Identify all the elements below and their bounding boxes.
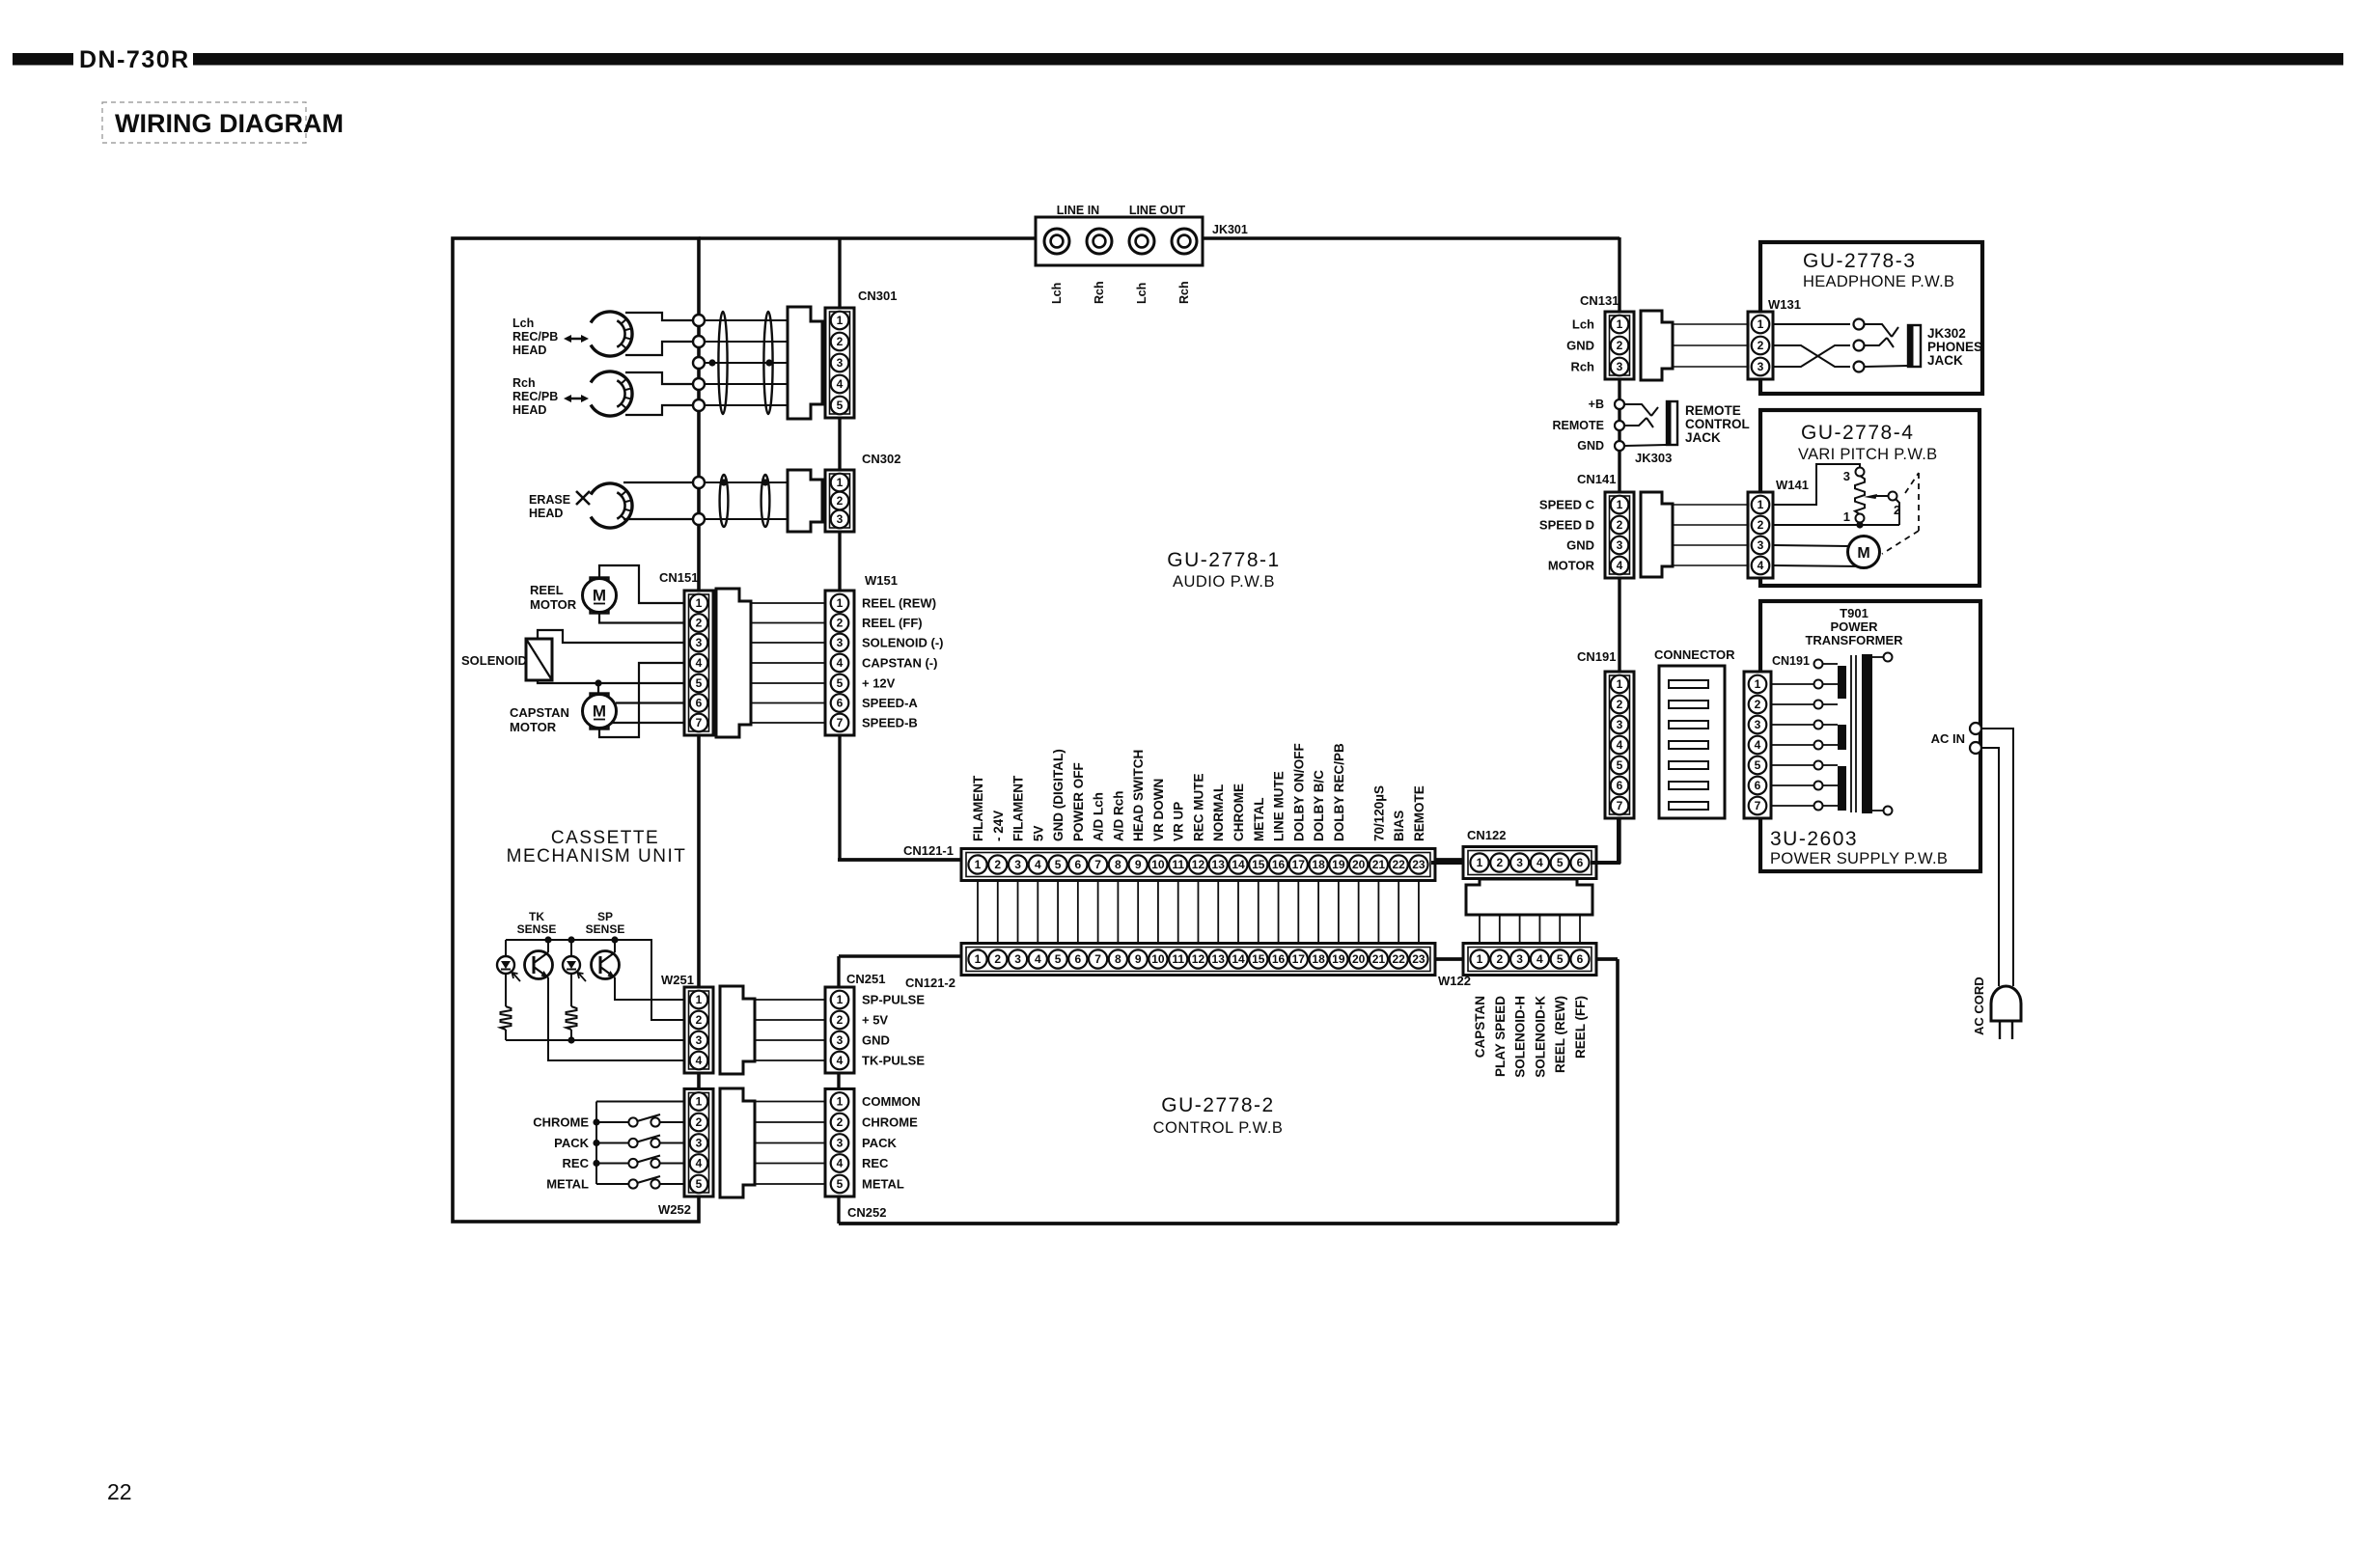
svg-text:6: 6 xyxy=(1577,856,1584,869)
svg-text:3: 3 xyxy=(837,1137,844,1150)
svg-text:CN302: CN302 xyxy=(862,452,900,466)
wire Rch head bottom lead xyxy=(625,405,693,415)
svg-text:DN-730R: DN-730R xyxy=(79,46,190,73)
Rch REC/PB head xyxy=(591,371,632,416)
phones jack contact circles xyxy=(1854,319,1865,372)
svg-text:2: 2 xyxy=(837,617,844,630)
shield junction dots CN302 xyxy=(720,479,768,485)
svg-text:4: 4 xyxy=(1035,858,1041,871)
svg-text:6: 6 xyxy=(1755,779,1761,792)
wires housing to CN251 xyxy=(755,1000,825,1060)
svg-text:W251: W251 xyxy=(661,973,694,987)
svg-text:4: 4 xyxy=(837,377,844,391)
svg-text:SPEED-B: SPEED-B xyxy=(862,716,918,730)
svg-text:4: 4 xyxy=(1536,952,1543,966)
phones jack ring spring xyxy=(1865,338,1887,345)
svg-text:SP: SP xyxy=(597,910,613,923)
svg-text:1: 1 xyxy=(1755,677,1761,691)
svg-text:REC/PB: REC/PB xyxy=(512,330,558,344)
svg-text:CN251: CN251 xyxy=(846,972,885,986)
wire solenoid to CN151 pin5 with junction xyxy=(538,680,685,683)
connector housing CN141 xyxy=(1641,492,1673,577)
label TK SENSE xyxy=(517,910,557,936)
svg-text:7: 7 xyxy=(1617,799,1623,812)
svg-text:CONNECTOR: CONNECTOR xyxy=(1654,647,1735,662)
connector W141 pins 1-4 xyxy=(1748,492,1773,578)
svg-text:REC: REC xyxy=(862,1156,889,1170)
connector W151 pins 1-7 xyxy=(825,591,854,735)
svg-text:SENSE: SENSE xyxy=(586,922,625,936)
svg-text:2: 2 xyxy=(1758,339,1764,352)
svg-text:19: 19 xyxy=(1332,952,1345,966)
wire TK transistor to W251 pin4 xyxy=(548,977,686,1060)
control pwb GU-2778-2 label xyxy=(1153,1094,1284,1137)
svg-text:AC IN: AC IN xyxy=(1931,731,1965,746)
connector CN301 pins 1-5 xyxy=(825,308,854,418)
svg-text:5: 5 xyxy=(1055,952,1062,966)
svg-text:3: 3 xyxy=(1516,856,1523,869)
svg-text:FILAMENT: FILAMENT xyxy=(971,775,985,841)
svg-text:GND: GND xyxy=(1566,538,1594,553)
transformer secondary terminals xyxy=(1872,653,1893,815)
arrow to Rch head xyxy=(564,395,589,402)
wire capstan motor to CN151 pin7 speed xyxy=(612,722,685,724)
svg-text:7: 7 xyxy=(696,716,703,729)
wire W141 pin2 to pot wiper/bottom xyxy=(1773,499,1899,529)
svg-text:GND: GND xyxy=(862,1033,890,1048)
svg-text:9: 9 xyxy=(1135,858,1142,871)
svg-text:2: 2 xyxy=(994,952,1001,966)
svg-text:LINE IN: LINE IN xyxy=(1057,204,1099,217)
svg-text:1: 1 xyxy=(1758,498,1764,511)
svg-text:6: 6 xyxy=(837,697,844,710)
svg-text:3U-2603: 3U-2603 xyxy=(1770,828,1858,850)
TK LED resistor xyxy=(505,974,507,1006)
svg-text:1: 1 xyxy=(1758,317,1764,331)
AC IN terminals xyxy=(1970,723,1981,754)
header bar right segment xyxy=(193,53,2343,66)
svg-text:20: 20 xyxy=(1352,858,1366,871)
svg-text:8: 8 xyxy=(1115,952,1121,966)
svg-text:SENSE: SENSE xyxy=(517,922,557,936)
junction dot sensor ground xyxy=(567,1036,574,1043)
svg-text:3: 3 xyxy=(1758,538,1764,552)
wire capstan motor to CN151 pin6 xyxy=(616,701,685,703)
svg-text:REC: REC xyxy=(563,1156,590,1170)
svg-text:W151: W151 xyxy=(865,573,898,588)
TK sense phototransistor xyxy=(547,940,549,952)
label CAPSTAN MOTOR xyxy=(510,705,569,734)
switch CHROME xyxy=(596,1114,686,1127)
svg-text:CAPSTAN: CAPSTAN xyxy=(510,705,569,720)
svg-text:MOTOR: MOTOR xyxy=(530,597,577,612)
svg-text:20: 20 xyxy=(1352,952,1366,966)
svg-text:18: 18 xyxy=(1312,858,1325,871)
connector CN121-1 23 pins xyxy=(961,849,1435,881)
cable shield ellipses CN302 xyxy=(720,475,770,527)
switch REC xyxy=(596,1156,686,1169)
svg-text:18: 18 xyxy=(1312,952,1325,966)
mechanical link dashed lines xyxy=(1882,473,1919,554)
svg-text:DOLBY ON/OFF: DOLBY ON/OFF xyxy=(1291,743,1306,841)
audio pwb GU-2778-1 box outline xyxy=(699,237,1619,864)
wires CN141 housing to W141 xyxy=(1673,505,1747,565)
labels T901 POWER TRANSFORMER xyxy=(1805,606,1903,647)
CONNECTOR block slots xyxy=(1669,680,1708,810)
svg-text:GND (DIGITAL): GND (DIGITAL) xyxy=(1051,749,1066,841)
svg-text:10: 10 xyxy=(1151,952,1165,966)
reel motor M xyxy=(583,578,617,614)
SP LED resistor xyxy=(570,974,572,1006)
connector housing for CN301 xyxy=(788,307,822,419)
labels REMOTE CONTROL JACK xyxy=(1685,403,1750,445)
svg-text:REEL: REEL xyxy=(530,583,564,597)
svg-text:7: 7 xyxy=(837,716,844,729)
connector CN131 pins 1-3 xyxy=(1605,312,1634,379)
svg-text:2: 2 xyxy=(1758,518,1764,532)
svg-text:5: 5 xyxy=(696,676,703,690)
svg-text:4: 4 xyxy=(1617,738,1623,752)
svg-text:A/D Lch: A/D Lch xyxy=(1092,792,1106,841)
svg-text:ERASE: ERASE xyxy=(529,493,570,507)
svg-text:1: 1 xyxy=(1477,856,1483,869)
CN251 signal labels xyxy=(862,993,925,1068)
svg-text:Rch: Rch xyxy=(512,376,536,390)
svg-text:REC/PB: REC/PB xyxy=(512,390,558,403)
phones jack body JK302 xyxy=(1908,325,1921,367)
svg-text:8: 8 xyxy=(1115,858,1121,871)
svg-text:17: 17 xyxy=(1292,858,1306,871)
TK sense LED xyxy=(505,940,507,956)
svg-text:A/D Rch: A/D Rch xyxy=(1111,790,1125,841)
connector W131 pins 1-3 xyxy=(1748,312,1773,379)
svg-text:METAL: METAL xyxy=(1252,798,1266,842)
Lch REC/PB head xyxy=(591,312,632,356)
junction nodes on mechanism bus to CN302 xyxy=(693,477,705,525)
svg-text:6: 6 xyxy=(1617,779,1623,792)
svg-text:CHROME: CHROME xyxy=(1232,784,1246,841)
svg-text:1: 1 xyxy=(696,596,703,610)
svg-text:3: 3 xyxy=(837,636,844,649)
svg-text:VR DOWN: VR DOWN xyxy=(1151,779,1166,841)
control pwb GU-2778-2 box outline xyxy=(839,956,1618,1224)
title WIRING DIAGRAM with dashed box xyxy=(102,102,344,143)
wires housing to CN252 xyxy=(755,1102,825,1185)
wire W141 pin3 to vari motor xyxy=(1773,545,1848,546)
wire crossover W131 pin2/pin3 xyxy=(1773,345,1850,367)
svg-text:+ 12V: + 12V xyxy=(862,676,896,691)
AC cord wires xyxy=(1981,729,2013,986)
connector CN191 pins 1-7 on power board xyxy=(1744,672,1771,818)
svg-text:CN191: CN191 xyxy=(1772,654,1810,668)
svg-text:POWER SUPPLY P.W.B: POWER SUPPLY P.W.B xyxy=(1770,850,1948,867)
svg-text:W122: W122 xyxy=(1438,974,1471,988)
connector W122 6 pins xyxy=(1463,944,1596,976)
remote control jack body JK303 xyxy=(1667,401,1677,445)
wires between CN121-1 and CN121-2 xyxy=(978,881,1419,944)
svg-text:M: M xyxy=(593,587,606,605)
svg-text:GU-2778-1: GU-2778-1 xyxy=(1167,549,1280,571)
label REEL MOTOR xyxy=(530,583,577,612)
svg-text:DOLBY B/C: DOLBY B/C xyxy=(1312,770,1326,841)
connector W251 pins 1-4 xyxy=(684,987,713,1073)
svg-text:CONTROL: CONTROL xyxy=(1685,417,1750,431)
svg-text:1: 1 xyxy=(696,1095,703,1109)
svg-text:2: 2 xyxy=(1617,518,1623,532)
switch PACK xyxy=(596,1136,686,1148)
svg-text:3: 3 xyxy=(1617,718,1623,731)
svg-text:HEAD: HEAD xyxy=(512,403,546,417)
svg-text:4: 4 xyxy=(1035,952,1041,966)
wire bus to W252 pin1 xyxy=(596,1101,686,1103)
svg-text:Lch: Lch xyxy=(1135,283,1149,304)
svg-text:HEAD: HEAD xyxy=(512,344,546,357)
connector CN121-2 23 pins xyxy=(961,944,1435,976)
svg-text:3: 3 xyxy=(1014,952,1021,966)
sensor supply wire xyxy=(506,940,686,1020)
svg-text:CN122: CN122 xyxy=(1467,828,1506,842)
svg-text:4: 4 xyxy=(696,1054,703,1067)
svg-text:10: 10 xyxy=(1151,858,1165,871)
svg-text:CN151: CN151 xyxy=(659,570,698,585)
svg-text:CONTROL P.W.B: CONTROL P.W.B xyxy=(1153,1119,1284,1137)
phones jack sleeve wire xyxy=(1865,366,1908,367)
svg-text:3: 3 xyxy=(837,356,844,370)
svg-text:1: 1 xyxy=(975,858,982,871)
connector CN251 pins 1-4 xyxy=(825,987,854,1073)
svg-text:GND: GND xyxy=(1577,439,1604,453)
svg-text:JK301: JK301 xyxy=(1212,223,1248,236)
wires CN191 to transformer primary xyxy=(1771,684,1814,806)
svg-text:1: 1 xyxy=(837,993,844,1006)
svg-text:HEAD SWITCH: HEAD SWITCH xyxy=(1131,750,1146,841)
svg-text:+ 5V: + 5V xyxy=(862,1013,888,1028)
svg-text:1: 1 xyxy=(837,476,844,489)
label Rch REC/PB HEAD xyxy=(512,376,558,417)
connector CN122 6 pins xyxy=(1463,847,1596,879)
svg-text:SOLENOID (-): SOLENOID (-) xyxy=(862,636,944,650)
svg-text:CN131: CN131 xyxy=(1580,293,1619,308)
svg-text:5: 5 xyxy=(1617,758,1623,772)
svg-text:2: 2 xyxy=(837,1115,844,1129)
svg-text:2: 2 xyxy=(837,1013,844,1027)
svg-text:GU-2778-4: GU-2778-4 xyxy=(1801,422,1914,444)
svg-text:5: 5 xyxy=(837,676,844,690)
svg-text:3: 3 xyxy=(1843,469,1850,483)
sensor ground wire to W251 pin3 xyxy=(506,1039,686,1041)
svg-text:1: 1 xyxy=(1617,677,1623,691)
remote jack sleeve wire xyxy=(1624,445,1667,446)
connector W252 pins 1-5 xyxy=(684,1089,713,1197)
svg-text:3: 3 xyxy=(837,512,844,526)
wire erase head top lead xyxy=(623,481,693,483)
svg-text:2: 2 xyxy=(1617,698,1623,711)
CN121-1 signal labels vertical xyxy=(971,743,1426,841)
switch METAL xyxy=(596,1176,686,1189)
svg-text:CN252: CN252 xyxy=(847,1205,886,1220)
svg-text:CASSETTE: CASSETTE xyxy=(551,828,659,848)
svg-text:4: 4 xyxy=(837,1054,844,1067)
svg-text:PACK: PACK xyxy=(554,1136,589,1150)
audio pwb GU-2778-1 label xyxy=(1167,549,1280,591)
svg-text:CN121-2: CN121-2 xyxy=(905,976,955,990)
vari pitch pwb GU-2778-4 box xyxy=(1760,410,1979,586)
jack channel labels Lch Rch Lch Rch xyxy=(1050,281,1191,304)
phones jack tip spring xyxy=(1865,324,1892,337)
connector housing CN151-W151 xyxy=(716,589,751,737)
svg-text:VARI PITCH P.W.B: VARI PITCH P.W.B xyxy=(1798,446,1937,463)
connector CN252 pins 1-5 xyxy=(825,1089,854,1197)
svg-text:5: 5 xyxy=(1557,952,1564,966)
svg-text:DOLBY REC/PB: DOLBY REC/PB xyxy=(1332,743,1346,841)
wires junctions to CN301 connector xyxy=(705,320,788,405)
svg-text:21: 21 xyxy=(1372,952,1386,966)
svg-text:23: 23 xyxy=(1412,952,1426,966)
svg-text:12: 12 xyxy=(1192,858,1205,871)
svg-text:2: 2 xyxy=(837,335,844,348)
SP sense LED xyxy=(570,940,572,956)
svg-text:17: 17 xyxy=(1292,952,1306,966)
wire capstan motor to CN151 pin4 xyxy=(599,663,685,737)
svg-text:LINE MUTE: LINE MUTE xyxy=(1272,771,1287,841)
svg-text:5: 5 xyxy=(1755,758,1761,772)
cassette mechanism unit label xyxy=(507,828,687,867)
svg-text:5: 5 xyxy=(837,1177,844,1191)
svg-text:2: 2 xyxy=(696,617,703,630)
wire erase head bottom lead xyxy=(623,518,693,520)
wires housing to W122 xyxy=(1480,915,1580,944)
svg-text:3: 3 xyxy=(696,1137,703,1150)
svg-text:JK303: JK303 xyxy=(1635,451,1672,465)
svg-text:W252: W252 xyxy=(658,1202,691,1217)
svg-text:1: 1 xyxy=(837,596,844,610)
svg-text:REC MUTE: REC MUTE xyxy=(1191,774,1205,842)
svg-text:MOTOR: MOTOR xyxy=(510,720,557,734)
svg-text:CN141: CN141 xyxy=(1577,472,1616,486)
svg-text:19: 19 xyxy=(1332,858,1345,871)
svg-text:2: 2 xyxy=(1496,856,1503,869)
svg-text:W141: W141 xyxy=(1776,478,1809,492)
svg-text:SPEED C: SPEED C xyxy=(1539,498,1595,512)
svg-text:3: 3 xyxy=(1755,718,1761,731)
wires CN131 housing to W131 xyxy=(1673,324,1747,367)
svg-text:Lch: Lch xyxy=(1572,317,1594,332)
CN252 signal labels xyxy=(862,1094,921,1192)
svg-text:3: 3 xyxy=(1758,360,1764,373)
svg-text:TRANSFORMER: TRANSFORMER xyxy=(1805,633,1903,647)
svg-text:6: 6 xyxy=(1577,952,1584,966)
remote jack tip spring xyxy=(1624,404,1651,416)
cable shield ellipses CN301 xyxy=(718,312,772,414)
svg-text:SOLENOID: SOLENOID xyxy=(461,653,527,668)
svg-text:CN301: CN301 xyxy=(858,289,897,303)
svg-text:W131: W131 xyxy=(1768,297,1801,312)
svg-text:1: 1 xyxy=(975,952,982,966)
svg-text:SPEED D: SPEED D xyxy=(1539,518,1594,533)
svg-text:15: 15 xyxy=(1252,952,1265,966)
svg-text:13: 13 xyxy=(1212,952,1226,966)
svg-text:MOTOR: MOTOR xyxy=(1548,559,1595,573)
svg-text:7: 7 xyxy=(1094,858,1101,871)
vari pitch potentiometer xyxy=(1855,464,1897,523)
svg-text:4: 4 xyxy=(696,1157,703,1170)
headphone pwb GU-2778-3 box xyxy=(1760,242,1982,394)
svg-text:5: 5 xyxy=(837,399,844,412)
svg-text:METAL: METAL xyxy=(862,1177,904,1192)
svg-text:M: M xyxy=(593,702,606,721)
svg-text:1: 1 xyxy=(1843,509,1850,524)
svg-text:5: 5 xyxy=(1055,858,1062,871)
svg-text:CAPSTAN (-): CAPSTAN (-) xyxy=(862,656,937,671)
svg-text:23: 23 xyxy=(1412,858,1426,871)
svg-text:6: 6 xyxy=(696,697,703,710)
svg-text:5: 5 xyxy=(696,1177,703,1191)
wire Lch head bottom lead xyxy=(625,342,693,355)
svg-text:1: 1 xyxy=(1477,952,1483,966)
svg-text:Rch: Rch xyxy=(1093,281,1106,304)
svg-text:CHROME: CHROME xyxy=(862,1115,918,1130)
wire SP transistor to W251 pin1 xyxy=(615,977,686,1000)
wire reel motor to CN151 pin1 xyxy=(599,565,685,603)
svg-text:3: 3 xyxy=(1617,360,1623,373)
transformer core lines xyxy=(1851,655,1856,812)
svg-text:+B: +B xyxy=(1589,398,1604,411)
svg-text:7: 7 xyxy=(1755,799,1761,812)
junction dots sensor supply xyxy=(544,936,618,943)
svg-text:SP-PULSE: SP-PULSE xyxy=(862,993,925,1007)
wires housing to W151 xyxy=(751,603,826,723)
svg-text:MECHANISM UNIT: MECHANISM UNIT xyxy=(507,846,687,867)
svg-text:3: 3 xyxy=(1516,952,1523,966)
label SP SENSE xyxy=(586,910,625,936)
solenoid symbol xyxy=(526,639,552,680)
svg-text:1: 1 xyxy=(1617,317,1623,331)
svg-text:Rch: Rch xyxy=(1177,281,1191,304)
svg-text:CN191: CN191 xyxy=(1577,649,1616,664)
wire junction down to capstan motor xyxy=(597,683,599,694)
wire W141 pin1 to pot top xyxy=(1773,464,1861,505)
svg-text:HEAD: HEAD xyxy=(529,507,563,520)
svg-text:REMOTE: REMOTE xyxy=(1553,419,1604,432)
svg-text:4: 4 xyxy=(1536,856,1543,869)
svg-text:GND: GND xyxy=(1566,339,1594,353)
svg-text:GU-2778-3: GU-2778-3 xyxy=(1803,250,1916,272)
transformer primary winding bars xyxy=(1823,664,1847,811)
svg-text:CAPSTAN: CAPSTAN xyxy=(1473,996,1487,1058)
svg-text:Lch: Lch xyxy=(512,316,534,330)
svg-text:CN121-1: CN121-1 xyxy=(903,843,954,858)
svg-text:16: 16 xyxy=(1272,858,1286,871)
shield junction dots CN301 xyxy=(708,359,772,366)
svg-text:4: 4 xyxy=(837,1157,844,1170)
wire CN121-1 to CN122 xyxy=(1431,861,1468,865)
svg-text:POWER: POWER xyxy=(1830,619,1878,634)
svg-text:13: 13 xyxy=(1212,858,1226,871)
svg-text:16: 16 xyxy=(1272,952,1286,966)
switch common bus xyxy=(595,1102,597,1185)
svg-text:22: 22 xyxy=(107,1479,132,1504)
svg-text:AC CORD: AC CORD xyxy=(1972,977,1986,1035)
wire W131 pin1 to jack tip contact xyxy=(1773,323,1850,325)
svg-text:3: 3 xyxy=(1617,538,1623,552)
svg-text:14: 14 xyxy=(1232,858,1245,871)
connector CN151 pins 1-7 xyxy=(684,591,713,735)
svg-text:COMMON: COMMON xyxy=(862,1094,921,1109)
connector housing CN122-W122 xyxy=(1466,879,1592,915)
wire CN122 to audio board corner xyxy=(1591,817,1619,863)
svg-text:9: 9 xyxy=(1135,952,1142,966)
vari pitch motor M xyxy=(1848,536,1880,568)
